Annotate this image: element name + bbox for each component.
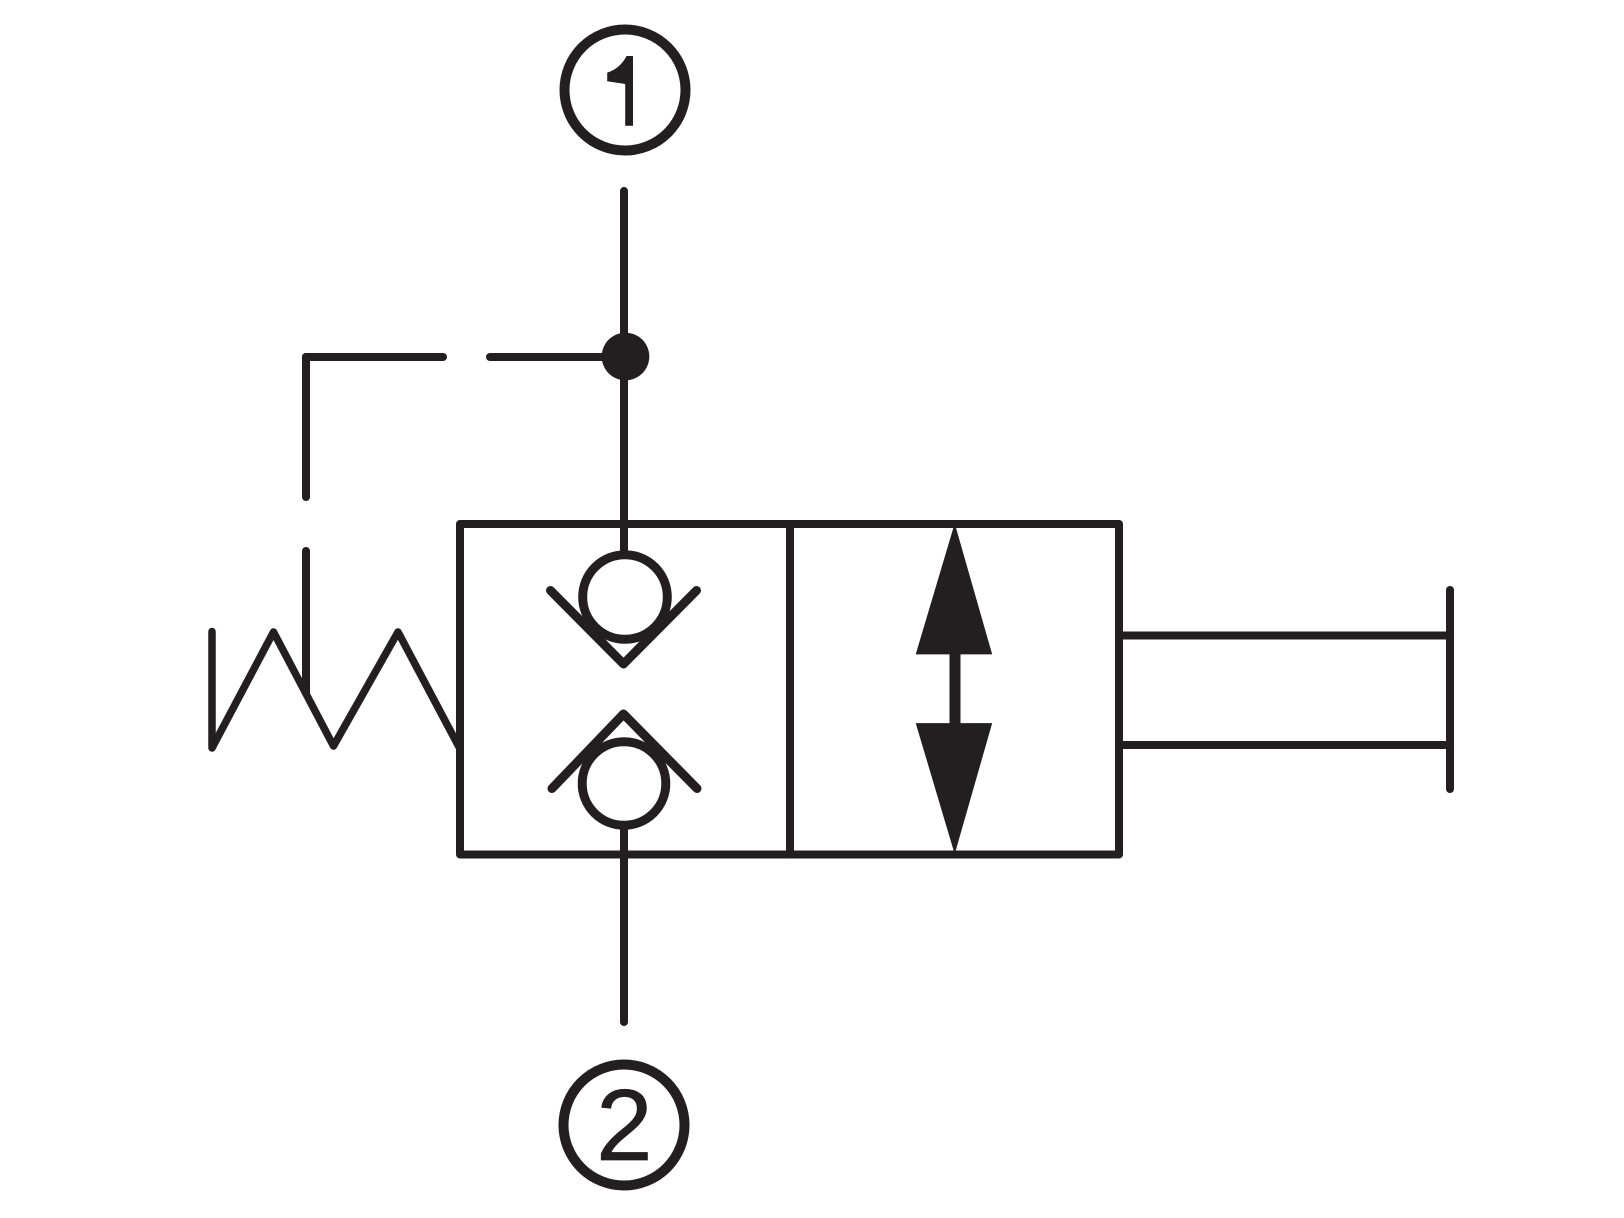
svg-text:2: 2 — [596, 1068, 652, 1182]
pilot line (dashed) horizontal dash a — [306, 353, 443, 361]
check valve CV2 seat (inverted V) — [552, 714, 697, 789]
port 1 circle — [565, 30, 686, 151]
actuator stem lower line — [1120, 741, 1447, 749]
valve body divider line — [786, 524, 794, 855]
port 2 circle — [564, 1065, 685, 1186]
pilot line (dashed) horizontal dash b — [490, 353, 616, 361]
port 1 label "1" — [607, 56, 633, 126]
flow arrow down (filled) — [916, 723, 993, 854]
wire junction to check valve CV1 — [620, 357, 628, 551]
actuator stem upper line — [1120, 632, 1447, 640]
actuator end bar — [1446, 590, 1454, 789]
wire check valve CV2 to port 2 — [620, 829, 628, 1022]
junction dot node — [602, 333, 650, 381]
pilot line (dashed) vertical dash c — [302, 357, 310, 497]
check valve CV1 seat (V) — [551, 591, 697, 665]
spring — [212, 632, 459, 749]
pilot line (dashed) vertical dash d — [302, 551, 310, 693]
flow arrow up (filled) — [916, 523, 993, 654]
valve body outer box — [460, 524, 1119, 855]
check valve CV1 ball — [583, 555, 668, 640]
flow arrow stem — [950, 650, 961, 727]
wire port 1 to junction — [620, 191, 628, 357]
check valve CV2 ball — [582, 742, 666, 826]
